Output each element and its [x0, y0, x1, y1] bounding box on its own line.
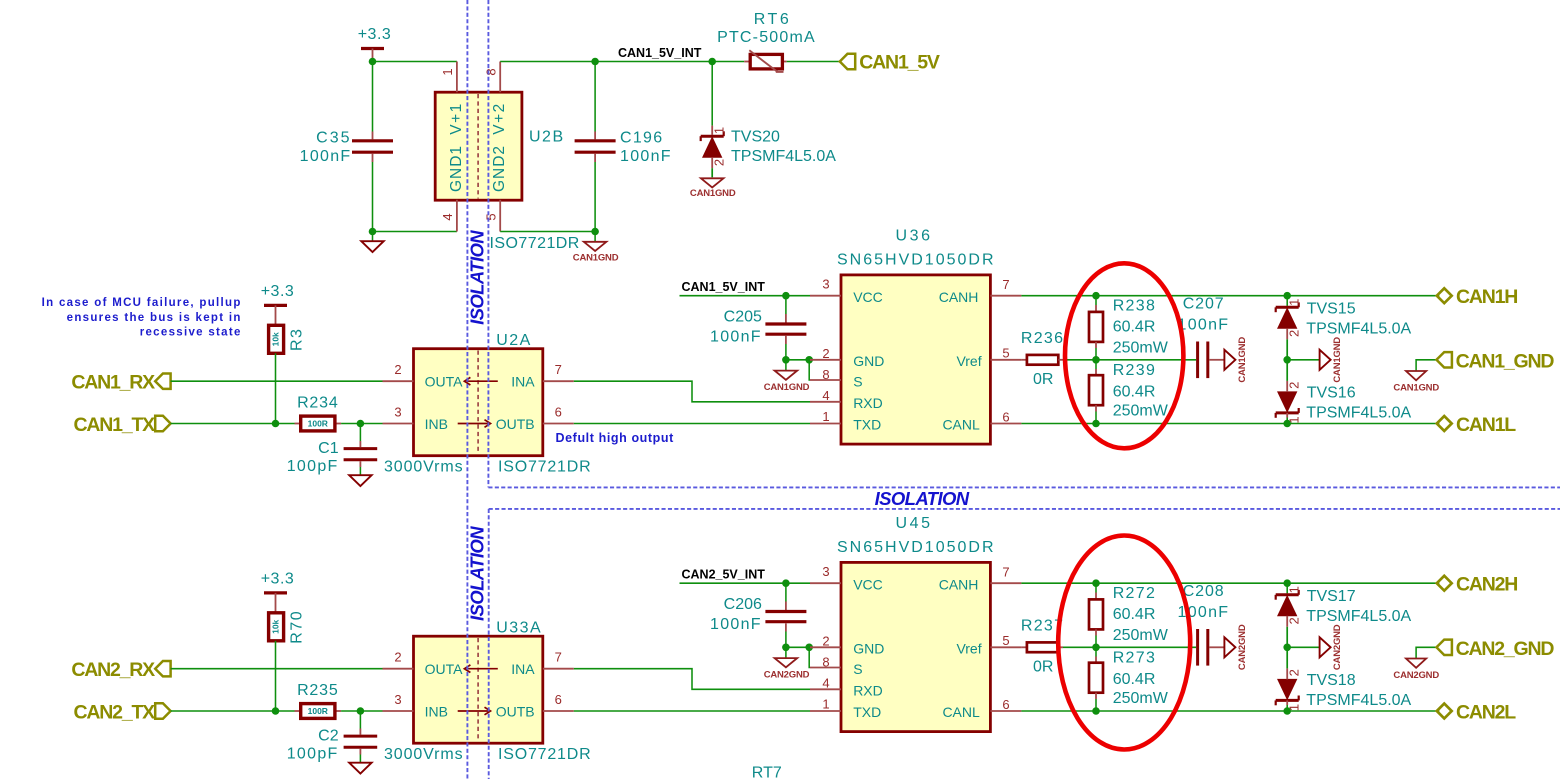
svg-text:PTC-500mA: PTC-500mA: [717, 29, 816, 46]
svg-text:SN65HVD1050DR: SN65HVD1050DR: [837, 251, 996, 268]
wire VCC net: [680, 582, 811, 584]
svg-text:250mW: 250mW: [1113, 690, 1169, 707]
U45 pin 2 GND: [810, 646, 841, 648]
svg-text:C206: C206: [724, 596, 762, 613]
svg-text:TPSMF4L5.0A: TPSMF4L5.0A: [731, 148, 836, 165]
svg-text:7: 7: [555, 362, 562, 377]
wire: [341, 423, 382, 425]
U45 pin 5 Vref: [990, 646, 1021, 648]
svg-text:TPSMF4L5.0A: TPSMF4L5.0A: [1306, 692, 1411, 709]
svg-text:8: 8: [822, 655, 829, 670]
wire VCC net: [680, 295, 811, 297]
U45 pin 7 CANH: [990, 582, 1021, 584]
svg-text:R239: R239: [1113, 362, 1156, 379]
svg-text:ISO7721DR: ISO7721DR: [490, 235, 580, 252]
svg-text:7: 7: [555, 649, 562, 664]
isolation boundary vertical line (right, upper): [487, 0, 489, 487]
svg-text:Defult high output: Defult high output: [556, 431, 675, 445]
svg-text:1: 1: [822, 697, 829, 712]
U45 pin 1 TXD: [810, 710, 841, 712]
svg-text:TPSMF4L5.0A: TPSMF4L5.0A: [1306, 320, 1411, 337]
svg-text:U45: U45: [896, 515, 933, 532]
capacitor C2: [359, 711, 361, 729]
svg-text:7: 7: [1002, 564, 1009, 579]
hierarchical label CAN1_RX: [155, 374, 170, 389]
U45 pin 3 VCC: [810, 582, 841, 584]
svg-text:CAN2GND: CAN2GND: [1393, 670, 1439, 681]
junction: [1092, 292, 1100, 300]
svg-text:CAN2GND: CAN2GND: [1332, 624, 1343, 670]
wire INA to RXD: [574, 669, 810, 690]
wire: [372, 162, 374, 232]
svg-text:C35: C35: [316, 130, 351, 147]
svg-text:SN65HVD1050DR: SN65HVD1050DR: [837, 539, 996, 556]
wire CAN1L net: [1021, 423, 1439, 425]
resistor R273: [1095, 647, 1097, 656]
U2A INA-to-OUTA arrow: [466, 380, 497, 382]
svg-text:250mW: 250mW: [1113, 627, 1169, 644]
svg-text:TPSMF4L5.0A: TPSMF4L5.0A: [1306, 404, 1411, 421]
svg-text:250mW: 250mW: [1113, 402, 1169, 419]
U36 pin 2 GND: [810, 359, 841, 361]
ground: [372, 232, 374, 242]
svg-text:2: 2: [712, 159, 727, 166]
svg-text:R235: R235: [297, 682, 338, 699]
wire: [786, 359, 810, 361]
wire Vref net: [1063, 646, 1196, 648]
svg-text:V+2: V+2: [491, 102, 508, 135]
U33A pin 2 OUTA: [383, 668, 414, 670]
svg-text:In case of MCU failure, pullup: In case of MCU failure, pullup: [42, 297, 242, 309]
svg-text:U2B: U2B: [529, 129, 565, 146]
isolation boundary vertical line (right, lower): [488, 509, 490, 779]
svg-text:R273: R273: [1113, 649, 1156, 666]
svg-text:2: 2: [1286, 330, 1301, 337]
svg-text:GND: GND: [853, 641, 884, 657]
wire: [171, 380, 383, 382]
svg-text:TVS15: TVS15: [1307, 300, 1356, 317]
svg-text:CANH: CANH: [939, 289, 979, 305]
U33A pin 6 OUTB: [543, 710, 574, 712]
power symbol +3.3 (top): [361, 47, 384, 50]
U2A pin 7 INA: [543, 380, 574, 382]
svg-text:CANH: CANH: [939, 577, 979, 593]
svg-text:1: 1: [712, 127, 727, 134]
svg-text:+3.3: +3.3: [358, 26, 392, 43]
wire GND to S pin: [808, 360, 811, 380]
svg-text:OUTB: OUTB: [496, 704, 535, 720]
svg-text:R238: R238: [1113, 298, 1156, 315]
svg-text:2: 2: [394, 362, 401, 377]
svg-text:CAN1GND: CAN1GND: [573, 252, 619, 263]
diode TVS15: [1286, 296, 1288, 306]
resistor R236 0R: [1021, 359, 1027, 361]
svg-text:RXD: RXD: [853, 395, 883, 411]
svg-text:CAN2_5V_INT: CAN2_5V_INT: [682, 568, 766, 582]
svg-text:C1: C1: [318, 440, 339, 457]
hierarchical label CAN2L: [1437, 704, 1452, 719]
junction: [708, 58, 716, 66]
junction: [369, 58, 377, 66]
power flag CAN1GND (under C196): [594, 232, 596, 242]
svg-text:8: 8: [483, 68, 498, 75]
power symbol +3.3 (R3 pullup): [264, 304, 287, 307]
power flag CAN1GND (right of TVS): [1287, 359, 1319, 361]
resistor R237 0R: [1021, 646, 1027, 648]
capacitor C205: [785, 296, 787, 314]
svg-text:CAN1_5V_INT: CAN1_5V_INT: [618, 46, 702, 60]
junction: [357, 420, 365, 428]
svg-text:+3.3: +3.3: [261, 283, 295, 300]
U36 pin 7 CANH: [990, 295, 1021, 297]
junction: [1283, 292, 1291, 300]
junction: [1092, 579, 1100, 587]
U2B pin 1 V+1: [456, 62, 458, 93]
svg-text:1: 1: [440, 68, 455, 75]
svg-text:R272: R272: [1113, 585, 1156, 602]
wire: [373, 61, 457, 63]
svg-text:2: 2: [822, 346, 829, 361]
wire: [787, 61, 840, 63]
svg-text:CAN1H: CAN1H: [1456, 286, 1517, 308]
svg-text:R70: R70: [289, 610, 306, 644]
U2B pin 8 V+2: [499, 62, 501, 93]
svg-text:TXD: TXD: [853, 704, 881, 720]
svg-text:4: 4: [440, 213, 455, 220]
svg-text:CAN2_RX: CAN2_RX: [71, 659, 155, 681]
svg-text:CAN2GND: CAN2GND: [764, 670, 810, 681]
isolation boundary vertical line (left): [466, 0, 468, 779]
svg-text:CAN1_TX: CAN1_TX: [74, 414, 156, 436]
power flag CAN2GND (label stub): [1406, 659, 1426, 668]
svg-text:CAN2_GND: CAN2_GND: [1456, 638, 1555, 660]
svg-text:8: 8: [822, 367, 829, 382]
svg-text:CAN1_GND: CAN1_GND: [1456, 350, 1555, 372]
svg-text:TVS20: TVS20: [731, 129, 780, 146]
svg-text:3000Vrms: 3000Vrms: [384, 459, 464, 476]
wire CAN1_5V_INT net: [500, 61, 744, 63]
svg-text:+3.3: +3.3: [261, 570, 295, 587]
svg-text:GND2: GND2: [491, 145, 508, 192]
svg-text:S: S: [853, 661, 862, 677]
svg-text:TXD: TXD: [853, 417, 881, 433]
U33A pin 7 INA: [543, 668, 574, 670]
U33A internal isolation barrier: [477, 638, 479, 742]
resistor R235: [295, 710, 301, 712]
U2A internal isolation barrier: [477, 351, 479, 455]
junction: [1283, 707, 1291, 715]
resistor R238: [1095, 296, 1097, 305]
svg-text:V+1: V+1: [448, 102, 465, 135]
thermistor RT6: [744, 61, 750, 63]
junction: [805, 356, 813, 364]
svg-text:1: 1: [1286, 586, 1301, 593]
svg-text:1: 1: [1286, 299, 1301, 306]
resistor R239: [1095, 360, 1097, 369]
wire OUTB to TXD: [574, 423, 810, 425]
hierarchical label CAN1L: [1437, 416, 1452, 431]
svg-text:CAN1GND: CAN1GND: [690, 188, 736, 199]
isolator U2A: [414, 349, 543, 456]
svg-text:Vref: Vref: [956, 641, 981, 657]
svg-text:CANL: CANL: [942, 417, 980, 433]
svg-text:R3: R3: [289, 328, 306, 351]
U2A pin 3 INB: [383, 423, 414, 425]
U36 pin 1 TXD: [810, 423, 841, 425]
svg-text:5: 5: [483, 213, 498, 220]
U33A INB-to-OUTB arrow: [458, 710, 489, 712]
svg-text:6: 6: [1002, 697, 1009, 712]
svg-text:ensures the bus is kept in: ensures the bus is kept in: [67, 312, 242, 324]
svg-text:2: 2: [822, 634, 829, 649]
U36 pin 4 RXD: [810, 401, 841, 403]
svg-text:4: 4: [822, 388, 829, 403]
svg-text:60.4R: 60.4R: [1113, 671, 1156, 688]
junction: [1092, 420, 1100, 428]
wire: [500, 231, 595, 233]
junction: [1092, 707, 1100, 715]
svg-text:C208: C208: [1183, 583, 1225, 600]
svg-text:3000Vrms: 3000Vrms: [384, 746, 464, 763]
svg-text:GND1: GND1: [448, 145, 465, 192]
svg-text:U33A: U33A: [496, 619, 542, 636]
svg-text:CAN2L: CAN2L: [1456, 701, 1516, 723]
svg-text:3: 3: [822, 564, 829, 579]
red ellipse highlight (termination R238/R239): [1065, 263, 1183, 448]
U45 pin 6 CANL: [990, 710, 1021, 712]
power flag CAN2GND (right of C208): [1209, 646, 1224, 648]
svg-text:CAN1_5V: CAN1_5V: [859, 52, 940, 74]
svg-text:VCC: VCC: [853, 289, 883, 305]
wire: [594, 162, 596, 232]
U2A INB-to-OUTB arrow: [458, 423, 489, 425]
svg-text:TVS18: TVS18: [1307, 672, 1356, 689]
svg-text:CAN1GND: CAN1GND: [764, 382, 810, 393]
junction: [782, 644, 790, 652]
svg-text:OUTA: OUTA: [425, 661, 464, 677]
U36 pin 6 CANL: [990, 423, 1021, 425]
ground (under C1): [349, 475, 371, 486]
junction: [782, 356, 790, 364]
resistor R70: [269, 613, 284, 641]
svg-text:S: S: [853, 373, 862, 389]
svg-text:CAN2_TX: CAN2_TX: [74, 701, 156, 723]
svg-text:2: 2: [1286, 382, 1301, 389]
svg-text:CAN2GND: CAN2GND: [1237, 624, 1248, 670]
U36 pin 8 S: [810, 379, 841, 381]
wire INA to RXD: [574, 381, 810, 402]
svg-text:INA: INA: [511, 661, 535, 677]
wire: [341, 710, 382, 712]
svg-text:ISOLATION: ISOLATION: [875, 488, 970, 509]
svg-text:100R: 100R: [308, 706, 328, 716]
svg-text:Vref: Vref: [956, 353, 981, 369]
svg-text:CAN1GND: CAN1GND: [1393, 382, 1439, 393]
isolator U2B: [435, 92, 522, 200]
svg-text:60.4R: 60.4R: [1113, 606, 1156, 623]
diode TVS20: [711, 62, 713, 126]
svg-text:6: 6: [1002, 409, 1009, 424]
junction: [369, 228, 377, 236]
svg-text:2: 2: [1286, 617, 1301, 624]
power flag CAN1GND (right of C207): [1209, 359, 1224, 361]
svg-text:CAN2H: CAN2H: [1456, 574, 1517, 596]
svg-text:TVS17: TVS17: [1307, 588, 1356, 605]
junction: [782, 579, 790, 587]
wire OUTB to TXD: [574, 710, 810, 712]
svg-text:60.4R: 60.4R: [1113, 384, 1156, 401]
svg-text:CAN1_RX: CAN1_RX: [71, 372, 155, 394]
capacitor C206: [785, 583, 787, 601]
svg-text:C196: C196: [620, 130, 663, 147]
svg-text:2: 2: [1286, 669, 1301, 676]
U2A pin 6 OUTB: [543, 423, 574, 425]
red ellipse highlight (termination R272/R273): [1058, 536, 1190, 750]
svg-text:100pF: 100pF: [287, 458, 339, 475]
ground (under C2): [349, 763, 371, 774]
power flag CAN1GND (under C205): [785, 360, 787, 371]
svg-text:100pF: 100pF: [287, 745, 339, 762]
power flag CAN1GND (under TVS20): [701, 178, 724, 187]
hierarchical label CAN2H: [1437, 576, 1452, 591]
svg-text:CAN1_5V_INT: CAN1_5V_INT: [682, 280, 766, 294]
svg-text:6: 6: [555, 405, 562, 420]
svg-text:OUTB: OUTB: [496, 416, 535, 432]
svg-text:R234: R234: [297, 395, 338, 412]
svg-text:U2A: U2A: [496, 332, 532, 349]
svg-text:60.4R: 60.4R: [1113, 319, 1156, 336]
svg-text:CAN1GND: CAN1GND: [1237, 337, 1248, 383]
svg-text:GND: GND: [853, 353, 884, 369]
svg-text:3: 3: [394, 405, 401, 420]
U33A INA-to-OUTA arrow: [466, 668, 497, 670]
wire: [275, 353, 277, 423]
junction: [591, 228, 599, 236]
wire CAN2L net: [1021, 710, 1439, 712]
svg-text:5: 5: [1002, 633, 1009, 648]
svg-text:100nF: 100nF: [710, 329, 762, 346]
U2A pin 2 OUTA: [383, 380, 414, 382]
wire: [372, 62, 374, 132]
wire CAN1H net: [1021, 295, 1439, 297]
wire: [373, 231, 457, 233]
svg-text:6: 6: [555, 692, 562, 707]
svg-text:U36: U36: [896, 227, 933, 244]
svg-text:ISO7721DR: ISO7721DR: [498, 746, 591, 763]
resistor R272: [1095, 583, 1097, 592]
wire CAN2H net: [1021, 582, 1439, 584]
wire GND to S pin: [808, 647, 811, 667]
capacitor C35: [372, 132, 374, 140]
hierarchical label CAN2_TX: [155, 703, 170, 718]
U2B pin 4 GND1: [456, 200, 458, 232]
svg-text:OUTA: OUTA: [425, 374, 464, 390]
svg-text:CANL: CANL: [942, 704, 980, 720]
capacitor C207: [1196, 342, 1199, 379]
U2B pin 5 GND2: [499, 200, 501, 232]
junction: [1283, 579, 1291, 587]
U36 pin 3 VCC: [810, 295, 841, 297]
svg-text:recessive state: recessive state: [140, 327, 242, 339]
junction: [1283, 420, 1291, 428]
svg-text:3: 3: [394, 692, 401, 707]
junction: [1283, 356, 1291, 364]
wire: [786, 646, 810, 648]
resistor R234: [295, 423, 301, 425]
U45 pin 8 S: [810, 667, 841, 669]
svg-text:C207: C207: [1183, 295, 1225, 312]
power flag CAN1GND (label stub): [1406, 371, 1426, 380]
svg-text:100R: 100R: [308, 418, 328, 428]
svg-text:VCC: VCC: [853, 577, 883, 593]
hierarchical label CAN2_RX: [155, 661, 170, 676]
svg-text:ISOLATION: ISOLATION: [467, 230, 488, 325]
svg-text:10k: 10k: [271, 332, 281, 346]
svg-text:ISOLATION: ISOLATION: [467, 526, 488, 621]
power flag CAN2GND (under C206): [785, 647, 787, 658]
svg-text:10k: 10k: [271, 619, 281, 633]
isolator U33A: [414, 636, 543, 743]
isolation boundary horizontal line (upper): [488, 486, 1560, 488]
svg-text:INB: INB: [425, 704, 448, 720]
junction: [591, 58, 599, 66]
svg-text:TPSMF4L5.0A: TPSMF4L5.0A: [1306, 608, 1411, 625]
diode TVS18: [1276, 699, 1299, 702]
svg-text:100nF: 100nF: [620, 148, 672, 165]
svg-text:2: 2: [394, 649, 401, 664]
capacitor C1: [359, 424, 361, 442]
junction: [1092, 356, 1100, 364]
svg-text:0R: 0R: [1033, 371, 1053, 388]
wire: [275, 641, 277, 711]
junction: [1092, 644, 1100, 652]
junction: [1283, 644, 1291, 652]
power symbol +3.3 (R70 pullup): [264, 591, 287, 594]
junction: [272, 707, 280, 715]
svg-text:0R: 0R: [1033, 658, 1053, 675]
svg-text:RT7: RT7: [752, 764, 782, 779]
isolation boundary horizontal line (lower): [489, 508, 1560, 510]
svg-text:INA: INA: [511, 374, 535, 390]
svg-text:CAN1L: CAN1L: [1456, 414, 1516, 436]
transceiver U45: [841, 562, 990, 731]
capacitor C208: [1196, 629, 1199, 666]
wire: [171, 423, 295, 425]
wire Vref net: [1063, 359, 1196, 361]
U2B internal isolation barrier: [477, 94, 479, 199]
junction: [805, 644, 813, 652]
junction: [272, 420, 280, 428]
hierarchical label CAN1_GND: [1416, 360, 1436, 371]
svg-text:CAN1GND: CAN1GND: [1332, 337, 1343, 383]
svg-text:100nF: 100nF: [300, 148, 352, 165]
hierarchical label CAN1_TX: [155, 416, 170, 431]
U36 pin 5 Vref: [990, 359, 1021, 361]
power flag CAN2GND (right of TVS): [1287, 646, 1319, 648]
diode TVS16: [1276, 411, 1299, 414]
hierarchical label CAN2_GND: [1416, 647, 1436, 658]
svg-text:R236: R236: [1021, 330, 1064, 347]
U33A pin 3 INB: [383, 710, 414, 712]
svg-text:250mW: 250mW: [1113, 340, 1169, 357]
transceiver U36: [841, 275, 990, 444]
svg-text:7: 7: [1002, 277, 1009, 292]
U45 pin 4 RXD: [810, 688, 841, 690]
svg-text:C205: C205: [724, 309, 762, 326]
hierarchical label CAN1_5V: [840, 54, 855, 69]
svg-text:RXD: RXD: [853, 683, 883, 699]
svg-text:4: 4: [822, 676, 829, 691]
